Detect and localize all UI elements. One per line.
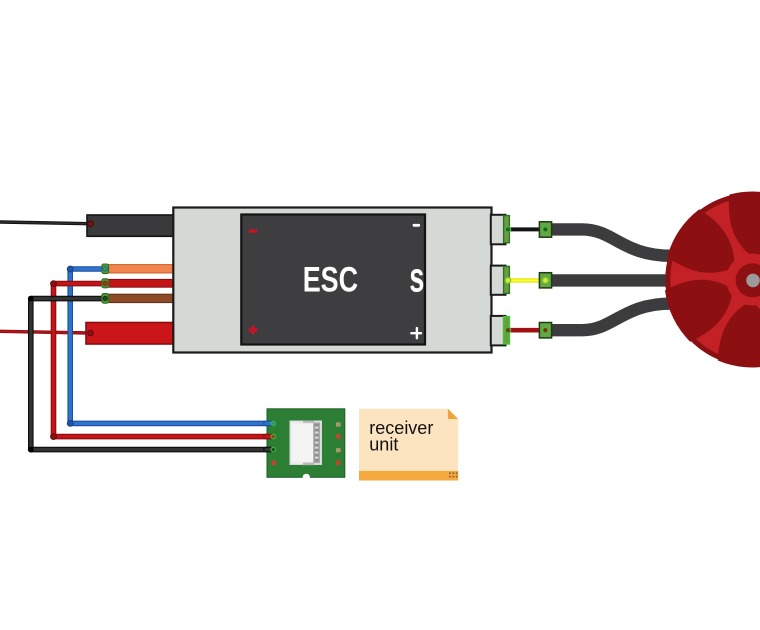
svg-text:s: s	[409, 255, 424, 301]
svg-text:ESC: ESC	[303, 260, 358, 299]
svg-text:unit: unit	[369, 435, 398, 455]
